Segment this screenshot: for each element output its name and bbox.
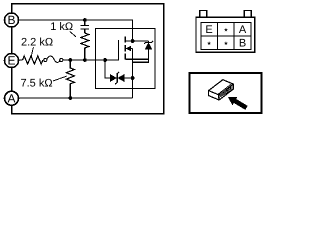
package box	[190, 73, 262, 113]
wire gate node	[63, 40, 119, 60]
package lid seam	[218, 83, 232, 94]
ring terminal right	[60, 58, 63, 61]
resistor R2 2.2 kOhm	[23, 56, 43, 64]
ring terminal left	[44, 58, 47, 61]
svg-text:E: E	[205, 24, 212, 36]
connector mounting tab right	[244, 11, 251, 18]
svg-text:7.5 kΩ: 7.5 kΩ	[21, 78, 53, 90]
resistor R3 7.5 kOhm	[66, 60, 74, 98]
svg-text:1 kΩ: 1 kΩ	[50, 21, 73, 33]
outer unit box	[12, 4, 164, 114]
svg-text:A: A	[239, 24, 247, 36]
connector body	[196, 17, 255, 52]
source stub	[125, 58, 148, 60]
node zener/body	[131, 76, 135, 80]
package connector stripes	[219, 87, 232, 98]
zener D2 bidirectional (gate clamp)	[105, 60, 110, 78]
zener D1 vertical (drain-source)	[148, 41, 150, 42]
svg-text:★: ★	[224, 27, 229, 33]
pointer arrow	[228, 97, 248, 110]
connector mounting tab left	[200, 11, 207, 18]
wire A	[19, 97, 133, 99]
svg-text:★: ★	[207, 41, 212, 47]
wire E	[19, 59, 23, 61]
pin table grid	[201, 22, 251, 49]
leader 2.2 kOhm	[31, 47, 33, 57]
terminal E	[5, 54, 19, 68]
node B/C1 junction	[83, 18, 87, 22]
capacitor C1	[84, 20, 86, 25]
terminal B	[5, 13, 19, 27]
node zener drop	[103, 58, 107, 62]
transistor Q1 MOSFET channel	[124, 37, 126, 60]
wire B to drain	[19, 20, 133, 41]
svg-text:2.2 kΩ: 2.2 kΩ	[21, 37, 53, 49]
drain node	[131, 39, 135, 43]
svg-text:★: ★	[224, 41, 229, 47]
body arrow	[125, 46, 131, 51]
flex wire between rings	[47, 56, 60, 62]
node 1k bottom	[83, 58, 87, 62]
svg-text:B: B	[7, 13, 15, 27]
leader 1 kOhm	[70, 32, 76, 37]
node 7.5k bottom	[68, 96, 72, 100]
svg-text:E: E	[7, 54, 15, 68]
inner component boundary box	[96, 29, 156, 89]
leader 7.5 kOhm	[53, 76, 67, 81]
svg-text:B: B	[239, 38, 246, 50]
drain stub	[125, 40, 148, 42]
wire to ring	[42, 59, 45, 61]
package 3D body	[209, 80, 234, 100]
node 7.5k top	[68, 58, 72, 62]
svg-text:A: A	[7, 92, 15, 106]
resistor R1 1 kOhm	[81, 33, 89, 60]
body/source vertical to A	[132, 49, 134, 99]
terminal A	[5, 91, 19, 105]
